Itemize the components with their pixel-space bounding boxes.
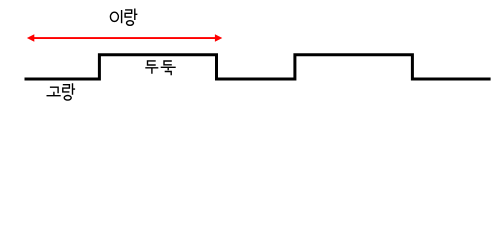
- glyph 둑: [164, 61, 172, 65]
- label 두둑 (ridge): [145, 61, 175, 75]
- label 고랑 (furrow): [47, 83, 76, 100]
- glyph 랑 (second): [63, 83, 75, 100]
- arrow: ridge-pitch double-headed red arrow (이랑 span): [27, 34, 222, 42]
- glyph 이: [110, 12, 118, 21]
- glyph 랑 (first): [125, 9, 137, 26]
- ridge-furrow ground profile line: [25, 55, 491, 79]
- label 이랑 (ridge+furrow pitch): [110, 9, 137, 26]
- glyph 고: [50, 87, 58, 93]
- glyph 두: [148, 61, 156, 65]
